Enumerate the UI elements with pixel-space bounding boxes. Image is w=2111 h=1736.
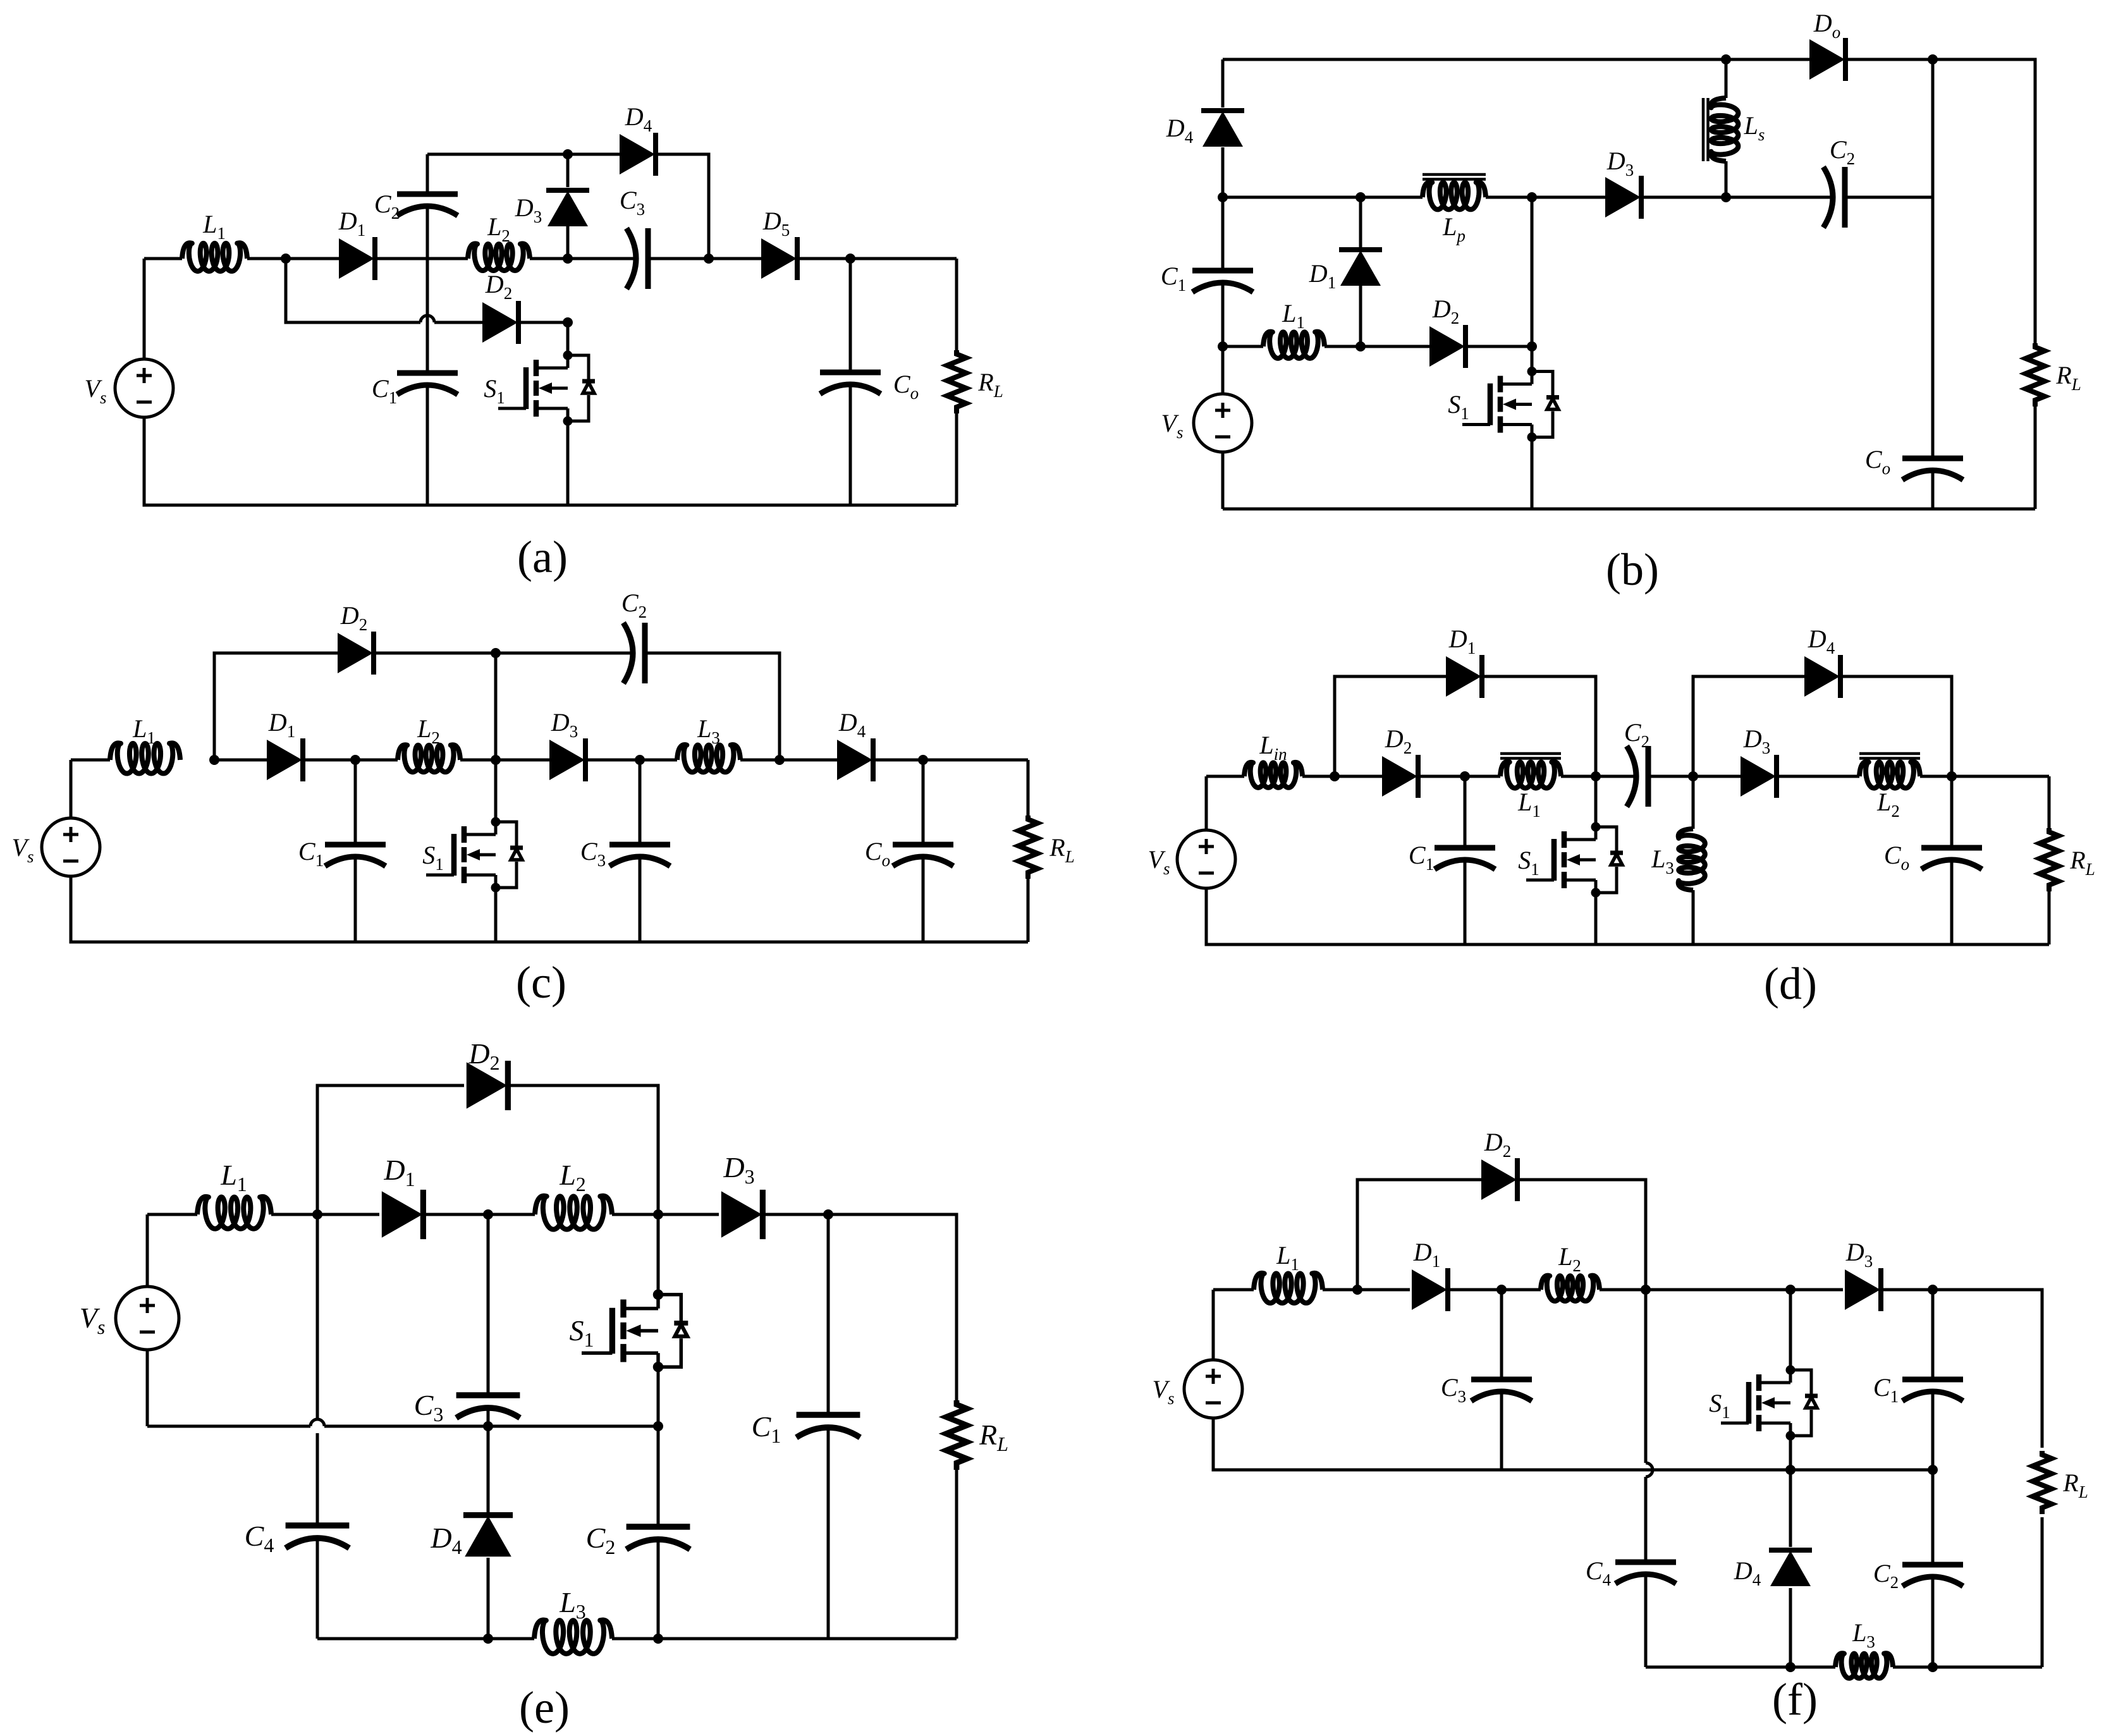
node: [1721, 54, 1731, 64]
svg-text:(c): (c): [516, 957, 566, 1008]
diode D2 (c): [338, 632, 374, 675]
wire left column: [1221, 59, 1225, 509]
inductor Ls (b) vertical coupled: [1725, 59, 1728, 197]
node: [653, 1634, 663, 1644]
bottom wire (f): [1646, 1666, 2042, 1669]
capacitor C1 (b): [1192, 271, 1253, 292]
wire C2/C1 column: [426, 154, 429, 505]
voltage source Vs (a): [115, 359, 173, 417]
wire: [146, 1214, 149, 1426]
wire: [709, 257, 761, 260]
inductor L2 (d) coupled: [1859, 762, 1920, 788]
node: [563, 254, 573, 264]
node: [483, 1421, 493, 1431]
node: [1928, 1662, 1938, 1672]
wire: [566, 421, 570, 505]
inductor L2 (e): [535, 1196, 612, 1230]
node: [1641, 1285, 1651, 1295]
wire: [460, 759, 549, 762]
inductor L1 (f): [1254, 1273, 1323, 1303]
wire: [1726, 58, 1809, 61]
resistor RL (b): [2026, 343, 2045, 406]
MOSFET S1 (e) column: [657, 1214, 660, 1293]
node: [823, 1209, 833, 1219]
node: [1928, 1465, 1938, 1475]
inductor L1 (e): [197, 1197, 271, 1229]
wire: [740, 759, 837, 762]
node: [653, 1421, 663, 1431]
inductor Lp (b) coupled: [1423, 182, 1486, 209]
node: [312, 1209, 322, 1219]
inductor L3 (f): [1835, 1653, 1893, 1678]
zero wire (f): [1502, 1469, 1933, 1472]
node: [1496, 1285, 1507, 1295]
resistor RL (f): [2033, 1451, 2052, 1514]
top branch (c): [214, 653, 780, 760]
diode D1 (c): [267, 738, 303, 781]
node: [653, 1209, 663, 1219]
capacitor C4 (f): [1615, 1562, 1676, 1584]
node: [563, 317, 573, 327]
inductor L1 (c): [110, 743, 180, 773]
svg-text:(f): (f): [1772, 1674, 1818, 1725]
capacitor C2 (b): [1823, 167, 1845, 228]
capacitor C3 (c) column: [639, 760, 642, 942]
diode D4 (a): [620, 133, 656, 176]
node: [1218, 341, 1228, 351]
wire: [1920, 775, 2049, 778]
diode D1 (e): [382, 1190, 424, 1239]
resistor RL (c): [1027, 760, 1030, 942]
diode D2 (d): [1382, 755, 1418, 798]
capacitor Co (b): [1902, 458, 1963, 480]
node: [1352, 1285, 1362, 1295]
wire top branch: [427, 153, 568, 156]
capacitor C2 (f) column: [1931, 1470, 1935, 1667]
wire: [1561, 775, 1636, 778]
inductor L1 (a): [182, 243, 247, 271]
capacitor C1 (a): [397, 373, 458, 394]
diode D3 (b): [1605, 176, 1641, 219]
diode D3 (c): [549, 738, 585, 781]
wire: [566, 322, 570, 355]
wire: [1693, 775, 1741, 778]
capacitor C3 (f) column: [1500, 1290, 1503, 1470]
wire: [286, 257, 339, 260]
diode D3 (a) vertical: [566, 154, 570, 187]
node: [704, 254, 714, 264]
node: [1527, 192, 1537, 202]
top branch D2 (e): [317, 1085, 658, 1214]
wire main (f): [1213, 1290, 2042, 1448]
capacitor C2 (a): [397, 194, 458, 216]
node: [1460, 771, 1470, 781]
node: [1330, 771, 1340, 781]
node: [563, 149, 573, 159]
MOSFET S1 (c) column: [494, 653, 498, 822]
capacitor C4 (e): [286, 1525, 350, 1548]
node: [845, 254, 855, 264]
left column (e) down to bottom: [316, 1214, 319, 1639]
node: [1928, 1285, 1938, 1295]
top branch D4 (d): [1693, 676, 1952, 776]
wire D2 branch: [286, 259, 482, 322]
capacitor Co (c) column: [922, 760, 925, 942]
capacitor C1 (e) column: [827, 1214, 830, 1639]
diode D1 (b) vertical: [1359, 197, 1362, 249]
inductor L3 (d) vertical: [1692, 776, 1695, 944]
inductor L1 (b): [1263, 332, 1325, 358]
wire: [214, 759, 267, 762]
node: [918, 755, 928, 765]
wire: [374, 257, 468, 260]
diode D4 (f) vertical: [1789, 1470, 1792, 1547]
voltage source Vs (b): [1194, 394, 1252, 452]
node: [483, 1209, 493, 1219]
voltage source Vs (e): [116, 1287, 179, 1350]
inductor L3 (e): [534, 1620, 612, 1653]
diode Do (b): [1809, 38, 1845, 81]
wire bottom: [1223, 508, 2035, 511]
node: [350, 755, 360, 765]
top branch D2 (f): [1357, 1180, 1646, 1290]
wire: [1417, 775, 1465, 778]
inductor Lin (d): [1244, 762, 1302, 788]
node: [1355, 192, 1366, 202]
node: [1785, 1285, 1796, 1295]
node: [209, 755, 219, 765]
diode D5 (a): [761, 237, 797, 280]
wire: [1206, 776, 2049, 944]
wire: [2034, 406, 2037, 509]
node: [1721, 192, 1731, 202]
wire: [1302, 775, 1382, 778]
wire: [518, 321, 568, 324]
diode D1 (f): [1412, 1268, 1448, 1311]
diode D4 (e) vertical: [487, 1426, 490, 1514]
capacitor C1 (d) column: [1464, 776, 1467, 944]
wire: [655, 154, 709, 259]
wire main (e): [147, 1214, 957, 1400]
svg-text:(a): (a): [517, 532, 568, 582]
voltage source Vs (c): [42, 818, 100, 876]
node: [1688, 771, 1698, 781]
capacitor C1 (f) column: [1931, 1290, 1935, 1470]
node: [491, 755, 501, 765]
wire: [1776, 775, 1859, 778]
wire: [1845, 59, 2035, 343]
node: [1591, 771, 1601, 781]
bottom wire (e): [317, 1637, 957, 1641]
diode D3 (d): [1741, 755, 1777, 798]
capacitor Co (d) column: [1950, 776, 1954, 944]
capacitor C3 (e) column: [487, 1214, 490, 1426]
diode D1 (a): [339, 237, 375, 280]
voltage source Vs (d): [1177, 830, 1235, 888]
MOSFET S1 (f) column: [1789, 1290, 1792, 1370]
node: [774, 755, 785, 765]
resistor RL (d): [2048, 776, 2051, 944]
node: [1928, 54, 1938, 64]
capacitor Co (a): [820, 372, 881, 394]
hop where D2 wire crosses C1 column: [420, 315, 434, 322]
node: [281, 254, 291, 264]
svg-text:(d): (d): [1764, 958, 1817, 1009]
wire: [1641, 196, 1726, 199]
diode D2 (b): [1429, 325, 1465, 368]
capacitor C1 (c) column: [354, 760, 357, 942]
inductor L2 (f): [1541, 1276, 1600, 1301]
wire: [872, 759, 1028, 762]
inductor L2 (a): [468, 243, 530, 271]
voltage source Vs (f): [1184, 1360, 1242, 1418]
wire: [1726, 196, 1933, 199]
wire: [585, 759, 677, 762]
diode D3 (f): [1845, 1268, 1881, 1311]
wire: [71, 760, 1028, 942]
wire S1 column (b): [1531, 197, 1534, 509]
top branch D1 (d): [1335, 676, 1596, 776]
diode D3 (e): [721, 1190, 763, 1239]
wire: [568, 153, 620, 156]
inductor L2 (c): [398, 745, 460, 772]
capacitor C3 (a): [627, 228, 648, 289]
wire: [1213, 1290, 1502, 1470]
node: [1527, 341, 1537, 351]
wire: [568, 257, 709, 260]
MOSFET S1 (a): [498, 351, 595, 426]
wire: [302, 759, 355, 762]
svg-text:(e): (e): [519, 1682, 570, 1733]
MOSFET S1 (b): [1462, 367, 1559, 442]
node: [1947, 771, 1957, 781]
wire: [797, 257, 957, 260]
svg-text:(b): (b): [1606, 544, 1659, 595]
wire: [355, 759, 398, 762]
wire: [144, 259, 957, 505]
MOSFET S1 (d) column: [1594, 776, 1598, 827]
wire: [1465, 775, 1500, 778]
mid wire (e) with hop: [147, 1425, 658, 1428]
node: [635, 755, 645, 765]
node: [1785, 1662, 1796, 1672]
wire L1 row: [1223, 345, 1532, 348]
diode D2 (a): [482, 301, 518, 344]
riser column (f) with hop over zero wire: [1644, 1290, 1648, 1667]
resistor RL (e): [946, 1400, 967, 1470]
resistor RL (a): [955, 259, 958, 505]
node: [483, 1634, 493, 1644]
capacitor C2 (d): [1627, 746, 1648, 807]
diode D4 (b) vertical: [1201, 111, 1244, 147]
wire: [1648, 775, 1693, 778]
inductor L1 (d) coupled: [1500, 762, 1561, 788]
wire top: [1223, 58, 1726, 61]
node: [1785, 1465, 1796, 1475]
wire: [530, 257, 568, 260]
node: [1218, 192, 1228, 202]
node: [491, 648, 501, 658]
capacitor C2 (c): [623, 623, 645, 683]
node: [1355, 341, 1366, 351]
diode D4 (c): [837, 738, 873, 781]
inductor L3 (c): [677, 745, 740, 772]
wire Co column: [849, 259, 852, 505]
wire output column: [1931, 59, 1935, 509]
wire mid: [1223, 196, 1605, 199]
capacitor C2 (e) column: [657, 1426, 660, 1639]
